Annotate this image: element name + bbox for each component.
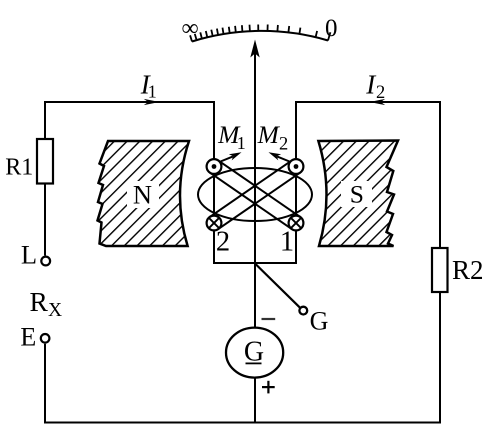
svg-text:E: E — [20, 322, 36, 351]
svg-text:R1: R1 — [5, 155, 33, 181]
svg-text:G: G — [310, 307, 329, 336]
svg-text:0: 0 — [325, 15, 338, 42]
svg-text:∞: ∞ — [181, 16, 198, 42]
svg-text:2: 2 — [279, 134, 288, 154]
svg-text:R: R — [30, 286, 49, 317]
svg-text:2: 2 — [216, 227, 230, 258]
svg-text:1: 1 — [237, 133, 246, 153]
svg-text:1: 1 — [148, 81, 157, 101]
svg-text:N: N — [133, 180, 152, 210]
svg-text:X: X — [48, 300, 62, 321]
svg-text:1: 1 — [280, 227, 294, 258]
svg-text:M: M — [257, 120, 281, 149]
svg-text:R2: R2 — [452, 255, 484, 285]
svg-text:S: S — [350, 180, 364, 209]
svg-text:L: L — [21, 240, 37, 270]
svg-text:2: 2 — [376, 83, 385, 103]
